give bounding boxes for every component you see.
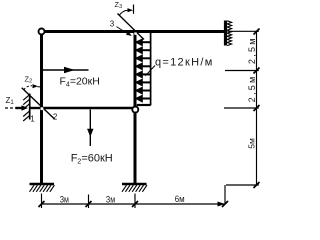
svg-text:2,5м: 2,5м (247, 36, 257, 64)
hinge middle (132, 107, 138, 113)
wall support top-right (226, 21, 232, 46)
node Z1 arrow (5, 105, 28, 110)
dimension bottom ticks (39, 201, 229, 207)
svg-text:Зм: Зм (106, 194, 115, 205)
node Z2 rotation arrow (24, 84, 42, 90)
label 3 leader arrow (117, 27, 132, 36)
dimension bottom line (42, 185, 226, 208)
node Z3 rotation arrow (119, 5, 134, 16)
ground support middle (122, 184, 147, 192)
svg-text:q=12кН/м: q=12кН/м (155, 57, 214, 69)
wire left column (40, 30, 43, 184)
svg-text:Зм: Зм (60, 194, 69, 205)
q label leader (145, 66, 155, 76)
svg-text:F2=60кН: F2=60кН (71, 152, 113, 165)
constraint 1 link (30, 107, 40, 109)
node 3 white dot (134, 32, 136, 34)
wire top beam (40, 30, 225, 33)
dimension right line (224, 31, 259, 185)
constraint 3 floating clamp diagonal (118, 14, 145, 40)
svg-text:1: 1 (30, 114, 35, 123)
node 1 white dot (41, 107, 44, 110)
svg-text:5м: 5м (247, 138, 257, 149)
ground support left (30, 184, 55, 192)
svg-text:2: 2 (53, 113, 58, 122)
constraint 1 wall (23, 94, 30, 122)
wire middle beam (42, 107, 135, 109)
force F2 arrow (87, 110, 93, 147)
wire right column (134, 30, 137, 184)
distributed load arrows (137, 40, 151, 101)
svg-text:3: 3 (110, 19, 115, 28)
svg-text:6м: 6м (175, 194, 185, 205)
dimension bottom arrow end (218, 202, 226, 207)
svg-text:2,5м: 2,5м (247, 74, 257, 102)
svg-text:F4=20кН: F4=20кН (60, 76, 100, 89)
distributed load bottom cap (137, 104, 151, 106)
distributed load q ladder rail (150, 33, 152, 105)
constraint 2 floating clamp diagonal (22, 88, 55, 120)
hinge top-left (39, 29, 45, 35)
dimension right ticks (254, 29, 260, 189)
force F4 arrow (43, 67, 89, 73)
